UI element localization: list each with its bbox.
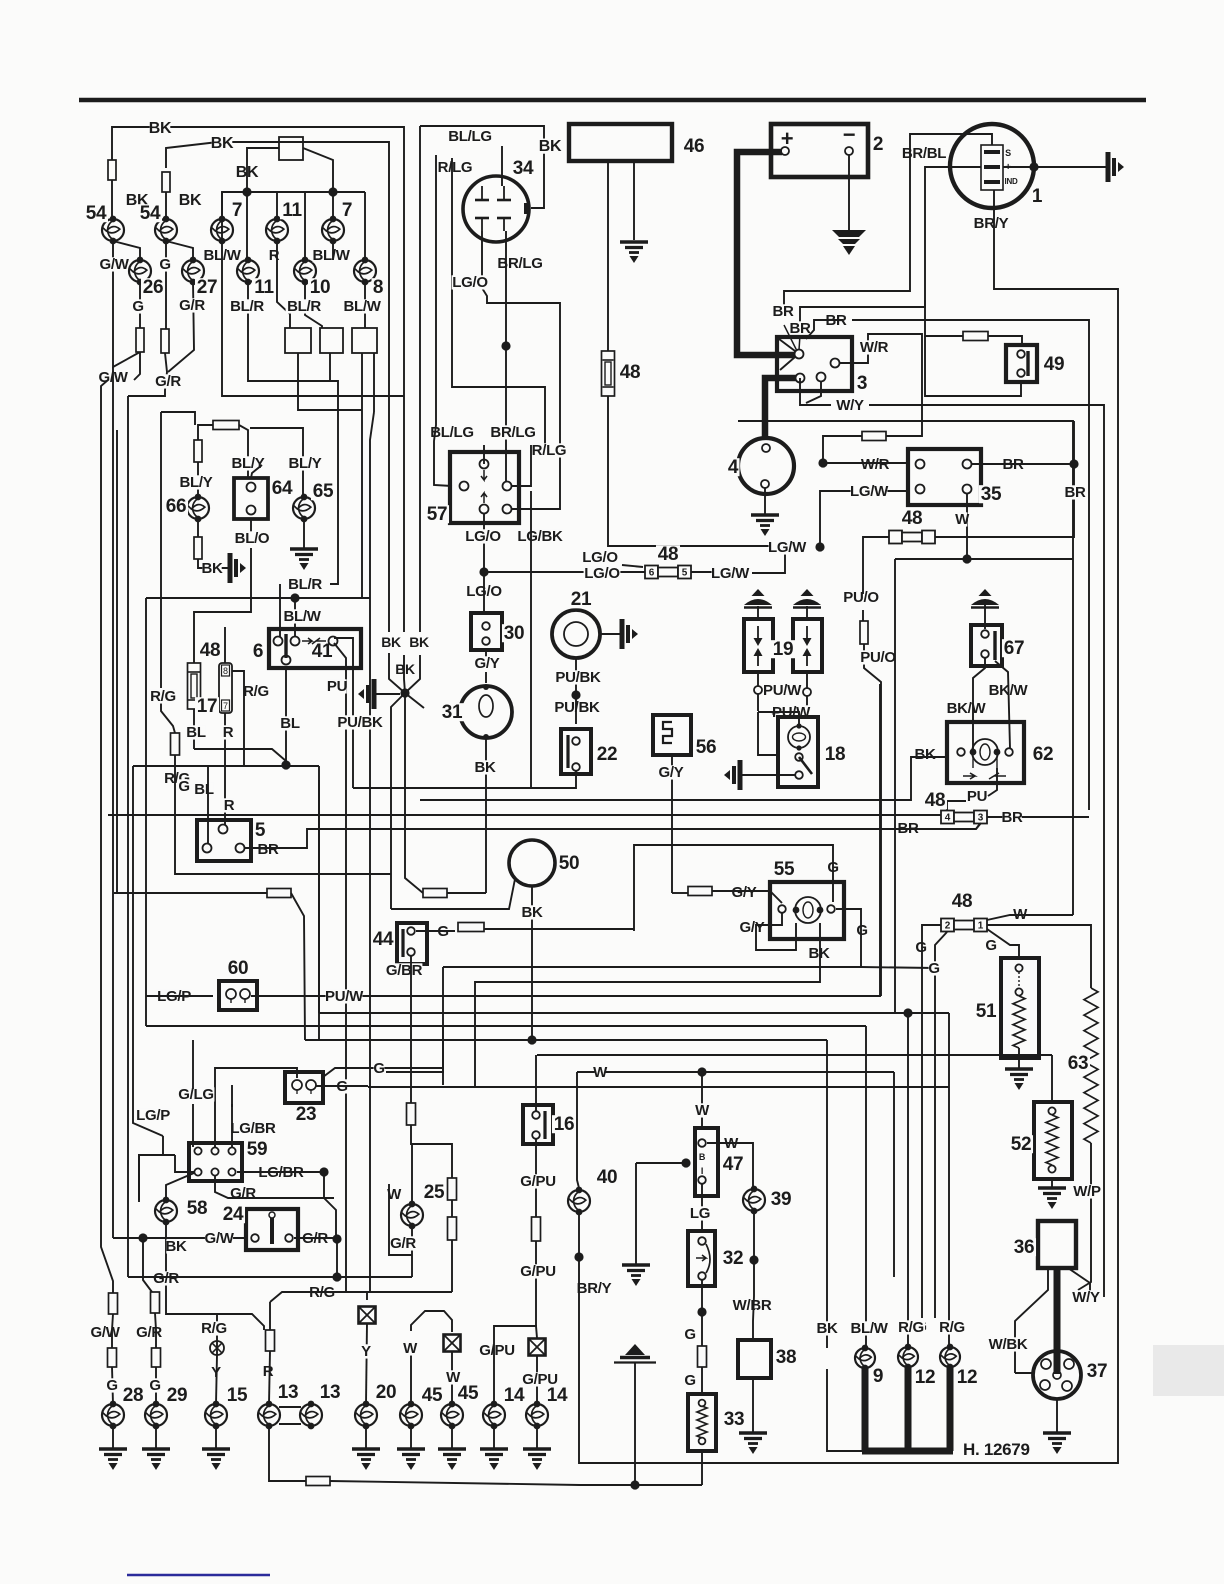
label BR/LG 34: [497, 255, 543, 272]
wire R/G x161 low: [161, 694, 175, 733]
wire BL bus 766: [133, 765, 319, 767]
wire right of 5: [318, 766, 320, 1013]
svg-text:W/P: W/P: [1073, 1183, 1101, 1200]
pin 34 br: [497, 218, 511, 231]
svg-text:17: 17: [197, 696, 218, 717]
xbox 45: [444, 1335, 461, 1352]
terminal 5 br: [236, 844, 245, 853]
term 35 d: [963, 485, 972, 494]
ground 14a: [480, 1449, 508, 1470]
wire 59 left2: [139, 1155, 175, 1200]
fuse 13: [266, 1330, 275, 1351]
svg-text:BK: BK: [816, 1320, 838, 1337]
wire 54b to G: [165, 241, 167, 329]
svg-text:R/G: R/G: [939, 1319, 965, 1336]
switch 5: [197, 820, 251, 861]
svg-text:LG/O: LG/O: [582, 549, 618, 566]
label LG/O r2: [584, 565, 621, 582]
plug 37 b: [1064, 1359, 1074, 1369]
coil 9: [855, 1345, 875, 1372]
wire WR fuse left: [823, 436, 862, 462]
junction W: [962, 554, 971, 563]
svg-text:26: 26: [143, 277, 164, 298]
fuse bottom: [306, 1477, 330, 1486]
svg-text:48: 48: [658, 544, 679, 565]
svg-text:63: 63: [1068, 1053, 1089, 1074]
svg-text:H. 12679: H. 12679: [963, 1440, 1030, 1459]
wire v949: [948, 1013, 950, 1348]
svg-text:3: 3: [857, 373, 867, 394]
junction bottom: [630, 1480, 639, 1489]
reg diag 1: [779, 339, 795, 351]
label LG/P 60: [156, 988, 193, 1005]
wire junction a down: [246, 192, 248, 260]
wire 62 internal: [972, 752, 974, 768]
wire 48b down: [608, 396, 804, 546]
svg-text:BR: BR: [789, 320, 811, 337]
label 32: [721, 1248, 745, 1269]
label LG 47: [690, 1205, 710, 1222]
svg-text:49: 49: [1044, 354, 1065, 375]
ground battery: [832, 230, 866, 255]
arrow 57 2: [481, 493, 487, 503]
svg-text:R: R: [263, 1363, 274, 1380]
label 48 e: [923, 790, 947, 811]
label 58: [185, 1198, 209, 1219]
wire 51 down: [1018, 1048, 1020, 1068]
wire bus y800: [420, 757, 933, 800]
svg-text:9: 9: [873, 1366, 883, 1387]
wire 58 bus: [113, 1237, 247, 1239]
wire left v 128 G/R: [127, 396, 129, 1277]
junction alt: [1029, 162, 1038, 171]
svg-text:4: 4: [945, 813, 951, 824]
dot 55 l: [793, 907, 800, 914]
wire 57 a left BL/LG: [434, 155, 452, 486]
svg-text:LG/BK: LG/BK: [517, 528, 563, 545]
svg-text:BK: BK: [474, 759, 496, 776]
wire 45b mid: [451, 1352, 453, 1404]
wire rg net2: [270, 1292, 367, 1302]
label BK vert a: [126, 192, 149, 209]
svg-text:BL/O: BL/O: [235, 530, 270, 547]
wire b1 down: [298, 353, 362, 410]
bulb 7a: [211, 216, 233, 245]
bulb 65: [293, 494, 315, 523]
label PU/W 60: [325, 988, 364, 1005]
wire g bus ext: [861, 967, 935, 968]
wire 41c right stub: [334, 638, 353, 788]
svg-text:BL: BL: [186, 724, 206, 741]
label BR/Y 40: [576, 1280, 613, 1297]
wire v370: [370, 412, 374, 1292]
svg-text:12: 12: [915, 1367, 936, 1388]
wire 48f leftcell down: [935, 932, 947, 1318]
term 24 b: [285, 1234, 293, 1242]
flasher 34: [463, 176, 529, 242]
label BK 55: [808, 945, 830, 962]
wire xbox down: [366, 1323, 367, 1404]
wire v908: [907, 1013, 909, 1348]
wire W/Y b: [800, 378, 831, 405]
svg-text:BR/LG: BR/LG: [490, 424, 535, 441]
label G 55: [827, 859, 838, 876]
svg-text:R: R: [223, 724, 234, 741]
svg-text:LG/W: LG/W: [711, 565, 750, 582]
wire PU/O: [862, 536, 864, 594]
feed symbol alt: [1108, 152, 1124, 182]
bulb 20: [355, 1401, 377, 1430]
wire 45a top: [410, 1355, 412, 1404]
junction BL/R: [290, 593, 299, 602]
bar 24: [269, 1212, 275, 1244]
wire 24 right: [294, 1237, 336, 1239]
svg-text:58: 58: [187, 1198, 208, 1219]
wire 25 loop: [389, 1184, 412, 1255]
alt bar S: [984, 150, 1000, 154]
label 14b: [545, 1385, 569, 1406]
label 66: [164, 496, 188, 517]
distributor 37: [1033, 1351, 1081, 1399]
label BK 31: [474, 759, 496, 776]
svg-text:BL/Y: BL/Y: [180, 474, 213, 491]
svg-text:LG/BR: LG/BR: [230, 1120, 276, 1137]
svg-text:−: −: [843, 122, 856, 147]
wire 48e right: [987, 816, 1089, 818]
wire b3 down: [361, 353, 363, 598]
wire v undefined: [318, 780, 320, 1040]
wire 48d left: [863, 536, 889, 538]
beam icon a: [744, 589, 772, 608]
label R/G low: [163, 770, 191, 787]
coil term bottom: [761, 480, 769, 488]
svg-text:G/LG: G/LG: [178, 1086, 213, 1103]
svg-text:W/Y: W/Y: [1072, 1289, 1100, 1306]
svg-text:BL/R: BL/R: [288, 576, 322, 593]
cable 12a: [905, 1367, 912, 1451]
term 18 a: [795, 753, 803, 761]
wire WR to 35: [823, 462, 908, 464]
wire BK drop to 7a: [222, 192, 247, 241]
term 55 b: [827, 905, 835, 913]
svg-text:G: G: [928, 960, 939, 977]
wire bus 1072b: [577, 1071, 894, 1073]
svg-text:12: 12: [957, 1367, 978, 1388]
label LG/O 34: [452, 274, 489, 291]
dotarrow 51: [1018, 972, 1020, 988]
svg-text:W: W: [403, 1340, 418, 1357]
wire PU/O b: [862, 610, 864, 621]
fuse 49: [963, 332, 988, 341]
label 28: [121, 1385, 145, 1406]
label LG/BR b: [258, 1164, 304, 1181]
wire 45a net: [411, 1311, 452, 1332]
svg-text:BL/W: BL/W: [343, 298, 381, 315]
wire 21 right: [600, 633, 620, 635]
label BK 50: [521, 904, 543, 921]
terminal 41 d: [282, 656, 291, 665]
wire 50 down: [531, 886, 533, 1040]
svg-text:PU/O: PU/O: [843, 589, 879, 606]
wire 48f right w: [987, 915, 1073, 920]
wire 13 link bot: [279, 1423, 301, 1425]
junction LGW: [815, 542, 824, 551]
svg-text:5: 5: [255, 820, 266, 841]
label BK 2: [211, 135, 234, 152]
label W 39: [724, 1135, 739, 1152]
label G x922: [915, 1318, 926, 1335]
wire b2 down: [329, 353, 331, 381]
junction BR/LG 34: [501, 341, 510, 350]
wire glg up: [192, 1040, 194, 1089]
motor 52: [1034, 1102, 1072, 1179]
label 52: [1009, 1134, 1033, 1155]
wire BL/R label hook: [330, 578, 338, 584]
svg-text:19: 19: [773, 639, 794, 660]
wire 25 chain low: [451, 1240, 453, 1292]
label G/LG: [178, 1086, 215, 1103]
fuse 29 b: [152, 1348, 161, 1367]
junction gnd40: [681, 1158, 690, 1167]
label BK s3: [395, 661, 415, 677]
label 33: [722, 1409, 746, 1430]
label Y 20: [361, 1343, 372, 1360]
gray patch bottom right: [1153, 1345, 1224, 1396]
bulb 11b: [266, 216, 288, 245]
bulb 13a: [258, 1401, 280, 1430]
wire R/G fuse down: [175, 755, 391, 874]
svg-text:PU/W: PU/W: [325, 988, 364, 1005]
svg-text:R/G: R/G: [150, 688, 176, 705]
label W 16: [593, 1064, 608, 1081]
label 65: [311, 481, 335, 502]
wire b3b down: [373, 353, 375, 412]
svg-text:BL/R: BL/R: [230, 298, 264, 315]
wire v827: [826, 1040, 828, 1348]
svg-text:BR: BR: [1001, 809, 1023, 826]
wire 16 down: [535, 1139, 537, 1217]
label PU/BK 41: [337, 714, 383, 731]
wire 28 gnd: [112, 1426, 114, 1448]
bulb 40: [568, 1187, 590, 1216]
wire rg net: [217, 1314, 264, 1330]
label PU/O 2: [860, 649, 897, 666]
page top rule: [79, 98, 1146, 103]
bulb 39: [743, 1186, 765, 1215]
label G/Y 55: [730, 884, 758, 901]
svg-text:IND: IND: [1005, 177, 1018, 186]
xbox 14: [529, 1339, 546, 1356]
label 6: [251, 641, 264, 662]
panel lamps 60: [219, 981, 257, 1010]
svg-text:G: G: [106, 1377, 117, 1394]
bulb 13b: [300, 1401, 322, 1430]
label I 47: [701, 1166, 703, 1176]
label 34: [511, 158, 535, 179]
term 33 b: [699, 1438, 706, 1445]
wire 30 gy: [485, 672, 487, 683]
label W/BK: [989, 1336, 1028, 1353]
wire border34 left v: [419, 126, 421, 632]
label 49: [1042, 354, 1066, 375]
label 8: [371, 277, 384, 298]
fuse 64 top: [213, 421, 239, 430]
svg-text:52: 52: [1011, 1134, 1032, 1155]
svg-text:20: 20: [376, 1382, 397, 1403]
xbox rg: [359, 1307, 376, 1324]
overdrive 33: [688, 1394, 716, 1451]
cable 36 down: [1054, 1268, 1061, 1374]
term 19b: [803, 688, 811, 696]
coil 12b: [940, 1344, 960, 1371]
label BK s2: [409, 634, 429, 650]
wire 40 top: [577, 1072, 579, 1188]
arrow 19b: [803, 626, 812, 666]
ground 45a: [397, 1449, 425, 1470]
wire 46 left down: [607, 161, 609, 351]
switch 41 bar: [284, 634, 287, 658]
wire 25 chain mid2: [451, 1200, 453, 1217]
wire bk fuse mid: [291, 893, 305, 1040]
fuse 48 e: [941, 811, 987, 824]
battery minus: [843, 122, 856, 147]
term 59 c: [228, 1147, 235, 1154]
wire 59 gr down: [215, 1176, 334, 1198]
term 67 b: [981, 650, 989, 658]
ground 52: [1038, 1188, 1066, 1209]
coil cable: [765, 378, 796, 438]
wire 64 BL/O: [250, 519, 252, 532]
wire 7a up: [221, 192, 223, 219]
svg-text:BL: BL: [194, 781, 214, 798]
warning box 46: [569, 124, 672, 161]
switch 6 41: [269, 629, 361, 668]
svg-text:I: I: [701, 1166, 703, 1176]
connector 17: [219, 663, 232, 713]
terminal 41 a: [274, 637, 283, 646]
label 5: [253, 820, 266, 841]
wire 39 down b: [753, 1260, 754, 1321]
svg-text:13: 13: [278, 1382, 299, 1403]
ground 40: [622, 1265, 650, 1286]
wire 59 left drop: [139, 1155, 163, 1202]
term 57 d: [480, 505, 489, 514]
wire junction a up: [246, 160, 248, 192]
wire 13a down: [269, 1426, 306, 1481]
svg-text:PU/BK: PU/BK: [337, 714, 383, 731]
wire 47 down: [701, 1184, 703, 1231]
wire v113 down: [112, 367, 114, 1238]
wire BL to 5: [207, 766, 209, 844]
bulb 29: [145, 1401, 167, 1430]
bulb 7b: [322, 216, 344, 245]
svg-text:LG/O: LG/O: [584, 565, 620, 582]
svg-text:PU/O: PU/O: [860, 649, 896, 666]
bulb 8: [354, 257, 376, 286]
fuse R/G: [171, 733, 180, 755]
indicator 67: [971, 625, 1002, 666]
label G 23b: [373, 1060, 384, 1077]
wire bottom bus2: [635, 1484, 702, 1486]
wire 48f right g: [987, 929, 1019, 958]
svg-text:G/R: G/R: [230, 1185, 256, 1202]
wire 30 down: [485, 650, 487, 665]
fuse 26: [136, 328, 144, 352]
svg-text:66: 66: [166, 496, 187, 517]
label 17: [195, 696, 219, 717]
svg-text:W/R: W/R: [861, 456, 890, 473]
wire 8 down: [364, 282, 366, 328]
label PU/W b: [772, 704, 811, 721]
wire 54b top: [165, 192, 167, 220]
svg-text:45: 45: [422, 1385, 443, 1406]
label BK 3: [236, 164, 259, 181]
lever 18: [799, 757, 812, 774]
wire rg vert: [269, 1302, 271, 1330]
wire box left: [247, 148, 279, 160]
label BK 34: [539, 138, 562, 155]
label 29: [165, 1385, 189, 1406]
bulb 14b: [526, 1401, 548, 1430]
coil 4: [738, 438, 794, 494]
svg-text:27: 27: [197, 277, 218, 298]
wire 50 diag: [391, 879, 515, 909]
label G/Y 56: [657, 764, 685, 781]
term 16 b: [532, 1131, 540, 1139]
junction BK a: [242, 187, 251, 196]
label 64: [270, 478, 294, 499]
label 23: [294, 1104, 318, 1125]
plug 37 c: [1040, 1380, 1050, 1390]
label PU 48: [967, 788, 987, 805]
bulb 11a: [237, 257, 259, 286]
svg-text:W: W: [593, 1064, 608, 1081]
wire 40 down: [578, 1212, 580, 1257]
term 55 a: [778, 905, 786, 913]
bulb in 55: [795, 897, 821, 923]
wire 27 G/R: [168, 282, 194, 372]
wire 59 glg: [192, 1104, 194, 1147]
wire 52 up: [1051, 1055, 1053, 1102]
wire y421 bus: [738, 421, 1073, 915]
svg-text:PU/W: PU/W: [763, 682, 802, 699]
wire 23 tr: [323, 1068, 443, 1077]
feed symbol 21: [622, 619, 638, 649]
label G 29: [149, 1377, 160, 1394]
svg-text:BL/W: BL/W: [312, 247, 350, 264]
label G/BR 44: [386, 962, 423, 979]
wire wy hook: [1103, 1292, 1105, 1297]
label G b: [159, 256, 170, 273]
svg-text:G/PU: G/PU: [520, 1263, 555, 1280]
label 48 f: [950, 891, 974, 912]
label 2: [871, 134, 884, 155]
connector box top: [279, 137, 303, 160]
svg-text:35: 35: [981, 484, 1002, 505]
label 48 d: [900, 508, 924, 529]
arrows 62: [963, 773, 1006, 779]
wire BK bus top: [112, 127, 404, 632]
label BK 9: [816, 1320, 838, 1337]
svg-text:G: G: [915, 939, 926, 956]
wire pu to fuse: [947, 801, 966, 812]
svg-text:G: G: [856, 922, 867, 939]
wire 19b term down: [772, 696, 807, 714]
label 12a: [913, 1367, 937, 1388]
wire 60 right: [251, 684, 880, 996]
bulb 58: [155, 1197, 177, 1226]
wire 23 left up: [215, 1068, 297, 1147]
